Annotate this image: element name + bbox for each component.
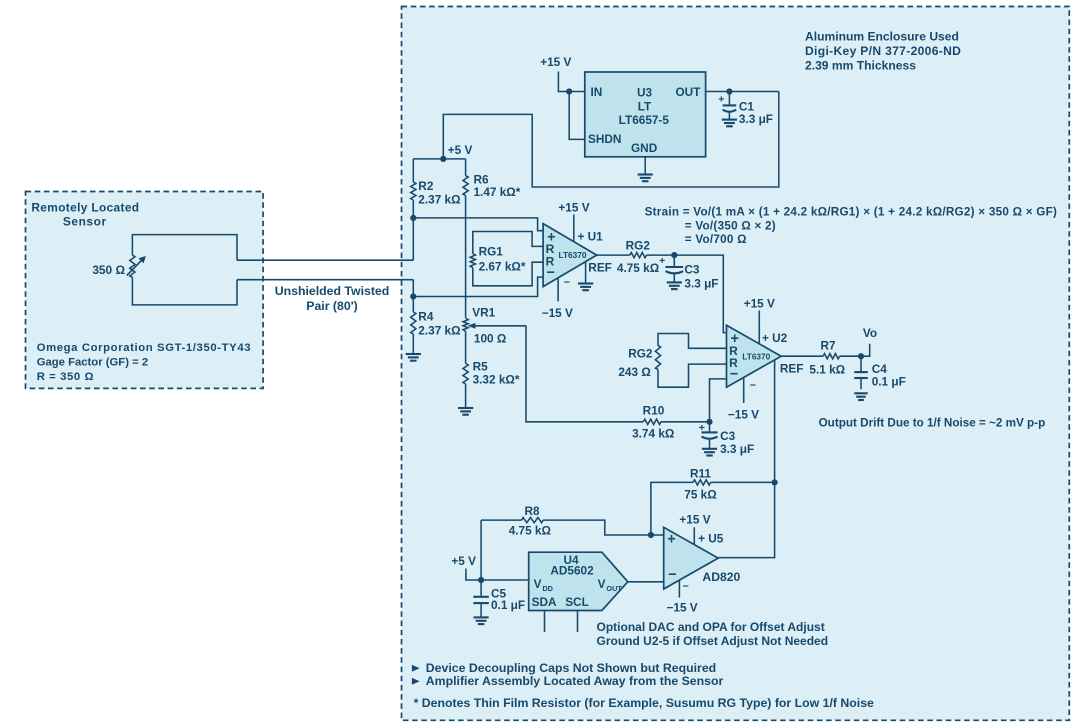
capacitor C1 plus <box>718 93 724 105</box>
svg-text:0.1 μF: 0.1 μF <box>491 598 525 612</box>
wire bridge + vertical <box>412 218 414 260</box>
label R2 <box>418 179 460 207</box>
wire R4 to ground <box>412 334 414 354</box>
ground (C1) <box>722 120 737 127</box>
resistor R6 <box>463 176 468 196</box>
svg-text:+15 V: +15 V <box>744 296 775 310</box>
capacitor C3b plus <box>699 422 705 434</box>
wire U3 OUT <box>706 91 779 93</box>
svg-text:R7: R7 <box>820 338 836 352</box>
svg-text:75 kΩ: 75 kΩ <box>684 487 716 501</box>
label REF (U2) <box>780 361 804 375</box>
wire U5 -supply <box>678 580 680 598</box>
potentiometer VR1 <box>463 318 468 331</box>
svg-text:Pair (80'): Pair (80') <box>306 299 357 313</box>
svg-text:3.3 μF: 3.3 μF <box>720 442 754 456</box>
wire +15V to U3 IN <box>558 72 584 92</box>
svg-text:−: − <box>730 367 738 383</box>
node C3b junction <box>706 419 712 425</box>
resistor RG1 <box>470 254 475 268</box>
label 3.74k <box>632 427 674 441</box>
wire U1 -supply <box>557 278 559 302</box>
label R5 <box>473 360 520 387</box>
svg-text:4.75 kΩ: 4.75 kΩ <box>509 524 551 538</box>
svg-text:2.67 kΩ*: 2.67 kΩ* <box>479 260 526 274</box>
svg-text:3.3 μF: 3.3 μF <box>739 112 773 126</box>
U2 pin marks <box>729 331 739 383</box>
capacitor C5 <box>473 580 489 617</box>
wire R4 top <box>412 297 414 313</box>
U1 pin marks <box>546 229 556 281</box>
U3 pin labels <box>588 85 701 155</box>
svg-text:RG2: RG2 <box>626 238 651 252</box>
wire to U5 +IN <box>651 534 664 536</box>
svg-text:= Vo/(350 Ω × 2): = Vo/(350 Ω × 2) <box>685 219 776 232</box>
svg-text:Optional DAC and OPA for Offse: Optional DAC and OPA for Offset Adjust <box>597 620 825 634</box>
ground (U1 REF) <box>578 284 593 291</box>
svg-text:1.47 kΩ*: 1.47 kΩ* <box>474 185 521 199</box>
sensor box title <box>31 201 139 229</box>
label -15V (U5) <box>667 600 698 614</box>
svg-text:R2: R2 <box>418 179 434 193</box>
strain gauge arrow <box>127 256 146 276</box>
capacitor C3 (first) <box>666 255 684 282</box>
svg-text:Digi-Key P/N 377-2006-ND: Digi-Key P/N 377-2006-ND <box>805 44 961 58</box>
svg-text:−: − <box>668 567 676 583</box>
wire twisted pair top <box>237 259 413 261</box>
wire R11 right <box>711 481 775 483</box>
wire bridge+ to U1 +IN <box>413 218 543 231</box>
label C4 <box>872 362 906 388</box>
label R4 <box>418 309 460 337</box>
sensor box outline <box>26 192 264 389</box>
svg-text:Vo: Vo <box>863 326 877 340</box>
svg-text:Remotely Located: Remotely Located <box>31 201 139 215</box>
ground (R4) <box>406 354 421 361</box>
wire R11 left <box>651 482 693 535</box>
svg-text:Ground U2-5 if Offset Adjust N: Ground U2-5 if Offset Adjust Not Needed <box>597 634 829 648</box>
svg-text:−15 V: −15 V <box>667 600 698 614</box>
capacitor C3 (second) <box>702 422 718 449</box>
resistor R11 <box>693 480 711 485</box>
op-amp U5 AD820 triangle <box>664 527 719 589</box>
svg-text:IN: IN <box>591 85 603 99</box>
strain gauge resistor 350 ohm <box>130 255 135 277</box>
svg-text:U3: U3 <box>637 86 653 100</box>
svg-text:SHDN: SHDN <box>588 132 621 146</box>
node U3 IN junction <box>566 88 572 94</box>
RG1 loop wires <box>473 232 543 286</box>
wire RG2 to node <box>647 254 675 256</box>
U4 pin VDD <box>534 577 553 593</box>
note decoupling <box>426 661 716 675</box>
label R6 <box>474 172 521 198</box>
capacitor C4 <box>854 356 868 389</box>
svg-text:* Denotes Thin Film Resistor (: * Denotes Thin Film Resistor (for Exampl… <box>414 696 874 710</box>
label RG2 top <box>626 238 651 252</box>
svg-text:5.1 kΩ: 5.1 kΩ <box>809 362 845 376</box>
svg-text:2.37 kΩ: 2.37 kΩ <box>418 323 460 337</box>
ground (C3 first) <box>667 282 682 289</box>
svg-text:SDA: SDA <box>532 595 557 609</box>
wire U1 out <box>597 254 630 256</box>
node C1 junction <box>726 88 732 94</box>
svg-text:LT6657-5: LT6657-5 <box>619 113 670 127</box>
wire R8 down to +5V node <box>480 520 482 580</box>
wire R6 to VR1 <box>465 196 467 318</box>
U1 minus supply sign <box>564 277 570 289</box>
svg-text:100 Ω: 100 Ω <box>474 331 506 345</box>
wire VR1 wiper to R10 <box>526 326 643 422</box>
svg-text:3.32 kΩ*: 3.32 kΩ* <box>473 372 520 386</box>
svg-text:SCL: SCL <box>565 595 589 609</box>
svg-text:LT6370: LT6370 <box>742 351 770 361</box>
svg-text:Output Drift Due to 1/f Noise: Output Drift Due to 1/f Noise = ~2 mV p-… <box>819 416 1046 429</box>
optional DAC note <box>597 620 829 648</box>
ground (C3 second) <box>702 449 717 456</box>
svg-text:3.3 μF: 3.3 μF <box>684 276 718 290</box>
ground (C4) <box>854 393 868 400</box>
svg-text:OUT: OUT <box>676 85 702 99</box>
wire Vo stub <box>861 344 870 357</box>
wire U2 -supply <box>743 378 745 404</box>
label -15V (U2) <box>728 407 759 421</box>
svg-text:−: − <box>546 265 554 281</box>
U2 minus supply sign <box>750 379 756 391</box>
wire U1 +supply <box>573 215 575 242</box>
svg-text:REF: REF <box>780 361 804 375</box>
ground (R5) <box>458 408 473 415</box>
label +5V (DAC) <box>451 554 476 568</box>
label + U1 <box>578 229 604 243</box>
label C5 <box>491 587 525 612</box>
label +15V (U5) <box>679 512 710 526</box>
wire VOUT to U5 -IN <box>628 581 664 583</box>
svg-text:−15 V: −15 V <box>728 407 759 421</box>
RG2b loop wires <box>658 334 727 388</box>
svg-text:V: V <box>534 577 542 591</box>
svg-text:+: + <box>718 93 724 105</box>
svg-text:REF: REF <box>588 261 612 275</box>
label unshielded twisted pair <box>275 284 390 313</box>
node C3a junction <box>671 252 677 258</box>
DAC U4 AD5602 outline <box>529 552 628 610</box>
label 4.75k <box>617 261 659 275</box>
svg-text:2.39 mm Thickness: 2.39 mm Thickness <box>805 58 916 72</box>
svg-text:Sensor: Sensor <box>63 214 107 228</box>
label C3 first <box>684 262 718 290</box>
label R7 <box>820 338 836 352</box>
wire +5V stub <box>466 569 481 581</box>
svg-text:OUT: OUT <box>606 584 622 593</box>
wire R10 to node <box>661 421 710 423</box>
node +5V DAC <box>478 577 484 583</box>
svg-text:R8: R8 <box>524 504 540 518</box>
wire bridge - vertical <box>412 280 414 297</box>
svg-text:+15 V: +15 V <box>679 512 710 526</box>
wire +5V rail <box>413 158 465 160</box>
label -15V (U1) <box>542 306 573 320</box>
svg-text:+5 V: +5 V <box>451 554 476 568</box>
op-amp U2 LT6370 triangle <box>727 325 782 387</box>
svg-text:AD820: AD820 <box>702 570 740 584</box>
resistor RG2 243 <box>655 346 660 370</box>
U4 pin VOUT <box>598 577 623 593</box>
U4 SDA pin wire <box>544 611 546 633</box>
svg-text:R = 350 Ω: R = 350 Ω <box>37 371 94 383</box>
regulator U3 LT6657-5 box <box>585 72 706 157</box>
wire node to U2 +IN <box>674 255 726 333</box>
svg-text:3.74 kΩ: 3.74 kΩ <box>632 427 674 441</box>
wire VR1 to R5 <box>465 331 467 363</box>
wire R2 bottom <box>412 200 414 218</box>
svg-text:+5 V: +5 V <box>448 143 473 157</box>
svg-text:DD: DD <box>542 584 553 593</box>
svg-text:243 Ω: 243 Ω <box>618 365 650 379</box>
svg-text:+15 V: +15 V <box>540 55 571 69</box>
wire U3 SHDN <box>569 92 585 140</box>
label + U2 <box>762 331 788 345</box>
svg-text:+ U5: + U5 <box>698 531 724 545</box>
svg-text:+: + <box>659 255 665 267</box>
svg-text:Aluminum Enclosure Used: Aluminum Enclosure Used <box>805 30 959 44</box>
svg-text:LT: LT <box>638 100 652 114</box>
wire U2 out <box>781 355 823 357</box>
label AD820 <box>702 570 740 584</box>
note thin film <box>414 696 874 710</box>
svg-text:+: + <box>667 532 675 548</box>
svg-text:+ U2: + U2 <box>762 331 788 345</box>
svg-text:350 Ω: 350 Ω <box>92 263 125 277</box>
svg-text:V: V <box>598 577 606 591</box>
wire U2 REF to U5 out <box>718 360 774 558</box>
label 75k <box>684 487 716 501</box>
node U5 +IN junction <box>648 532 654 538</box>
svg-text:+ U1: + U1 <box>578 229 604 243</box>
bullet 2 <box>412 678 420 685</box>
svg-text:0.1 μF: 0.1 μF <box>872 374 906 388</box>
svg-text:Omega Corporation SGT-1/350-TY: Omega Corporation SGT-1/350-TY43 <box>37 342 251 354</box>
svg-text:VR1: VR1 <box>472 306 495 320</box>
wire R7 to Vo node <box>840 355 861 357</box>
wire twisted pair bottom <box>237 279 413 281</box>
resistor R10 <box>643 419 661 424</box>
U5 minus supply sign <box>683 580 689 592</box>
sensor loop wire <box>132 235 237 305</box>
wire U5 +supply <box>693 527 695 544</box>
U4 pins SDA SCL <box>532 595 589 609</box>
wire offset to U2 -IN <box>710 379 727 422</box>
svg-text:−: − <box>564 277 570 289</box>
label C1 <box>739 99 773 126</box>
resistor RG2 (gain of U2 stage feed) <box>630 253 647 258</box>
wire R6 top <box>465 159 467 176</box>
label R10 <box>643 404 665 418</box>
U4 part name <box>550 553 594 577</box>
svg-text:4.75 kΩ: 4.75 kΩ <box>617 261 659 275</box>
svg-text:GND: GND <box>631 141 658 155</box>
U2 device name <box>742 351 770 361</box>
ground (C5) <box>474 617 489 624</box>
svg-text:AD5602: AD5602 <box>550 564 594 578</box>
label 5.1k <box>809 362 845 376</box>
enclosure note <box>805 30 961 73</box>
label +5V (bridge) <box>448 143 473 157</box>
svg-text:−: − <box>750 379 756 391</box>
label + U5 <box>698 531 724 545</box>
node R11/REF junction <box>772 479 778 485</box>
svg-text:−15 V: −15 V <box>542 306 573 320</box>
wire R8 to U5 +IN <box>543 520 651 535</box>
svg-text:−: − <box>683 580 689 592</box>
node bridge + (R2 bottom) <box>410 215 416 221</box>
U3 part name <box>619 86 670 127</box>
label VR1 <box>472 306 495 320</box>
ground (U3) <box>638 175 653 182</box>
sensor notes <box>37 342 251 383</box>
wire U2 +supply <box>758 311 760 344</box>
label R8 <box>524 504 540 518</box>
label +15V (U3) <box>540 55 571 69</box>
svg-text:2.37 kΩ: 2.37 kΩ <box>418 193 460 207</box>
svg-text:Strain = Vo/(1 mA × (1 + 24.2: Strain = Vo/(1 mA × (1 + 24.2 kΩ/RG1) × … <box>645 206 1058 219</box>
label +15V (U2) <box>744 296 775 310</box>
resistor R2 <box>411 182 416 200</box>
capacitor C3a plus <box>659 255 665 267</box>
VR1 wiper arrow <box>468 323 526 329</box>
wire +5V to VDD <box>481 579 529 581</box>
wire bridge- to U1 -IN <box>413 277 543 296</box>
bullet 1 <box>412 665 420 672</box>
wire U1 REF <box>585 262 587 283</box>
label +15V (U1) <box>558 200 589 214</box>
svg-text:C3: C3 <box>720 429 736 443</box>
capacitor C1 <box>723 92 737 119</box>
svg-text:= Vo/700 Ω: = Vo/700 Ω <box>685 233 747 246</box>
svg-text:Device Decoupling Caps Not Sho: Device Decoupling Caps Not Shown but Req… <box>426 661 716 675</box>
U3 GND pin wire <box>644 157 646 174</box>
svg-text:Unshielded Twisted: Unshielded Twisted <box>275 284 390 298</box>
enclosure (aluminum box) outline <box>402 7 1070 721</box>
svg-text:R11: R11 <box>690 466 711 480</box>
svg-text:RG2: RG2 <box>628 347 653 361</box>
label R11 <box>690 466 711 480</box>
label REF (U1) <box>588 261 612 275</box>
svg-text:+15 V: +15 V <box>558 200 589 214</box>
strain formula text <box>645 206 1058 247</box>
node Vo <box>858 353 864 359</box>
label RG1 <box>479 244 526 273</box>
wire R2 top <box>412 159 414 182</box>
resistor R4 <box>411 312 416 334</box>
svg-text:R4: R4 <box>418 309 434 323</box>
wire R5 to ground <box>465 384 467 408</box>
label Vo <box>863 326 877 340</box>
label C3 second <box>720 429 754 456</box>
wire +5V feed from U3 <box>443 92 779 188</box>
resistor R8 <box>522 518 544 523</box>
label 4.75k R8 <box>509 524 551 538</box>
label 100 ohm <box>474 331 506 345</box>
U4 SCL pin wire <box>577 611 579 633</box>
U5 pin marks <box>667 532 676 584</box>
svg-text:RG1: RG1 <box>479 244 504 258</box>
svg-text:Gage Factor (GF) = 2: Gage Factor (GF) = 2 <box>37 357 148 369</box>
U1 device name <box>559 250 587 260</box>
node bridge - (R4 top) <box>410 293 416 299</box>
svg-text:Amplifier Assembly Located Awa: Amplifier Assembly Located Away from the… <box>426 674 724 688</box>
wire R8 left <box>481 519 521 521</box>
svg-text:C3: C3 <box>684 262 700 276</box>
resistor R7 <box>823 354 840 359</box>
output drift note <box>819 416 1046 429</box>
label 350 ohm <box>92 263 125 277</box>
svg-text:R10: R10 <box>643 404 665 418</box>
note amplifier assembly <box>426 674 724 688</box>
op-amp U1 LT6370 triangle <box>543 224 597 287</box>
svg-text:C1: C1 <box>739 99 755 113</box>
node +5V bridge <box>440 156 446 162</box>
resistor R5 <box>463 364 468 385</box>
svg-text:LT6370: LT6370 <box>559 250 587 260</box>
label RG2b <box>618 347 653 379</box>
